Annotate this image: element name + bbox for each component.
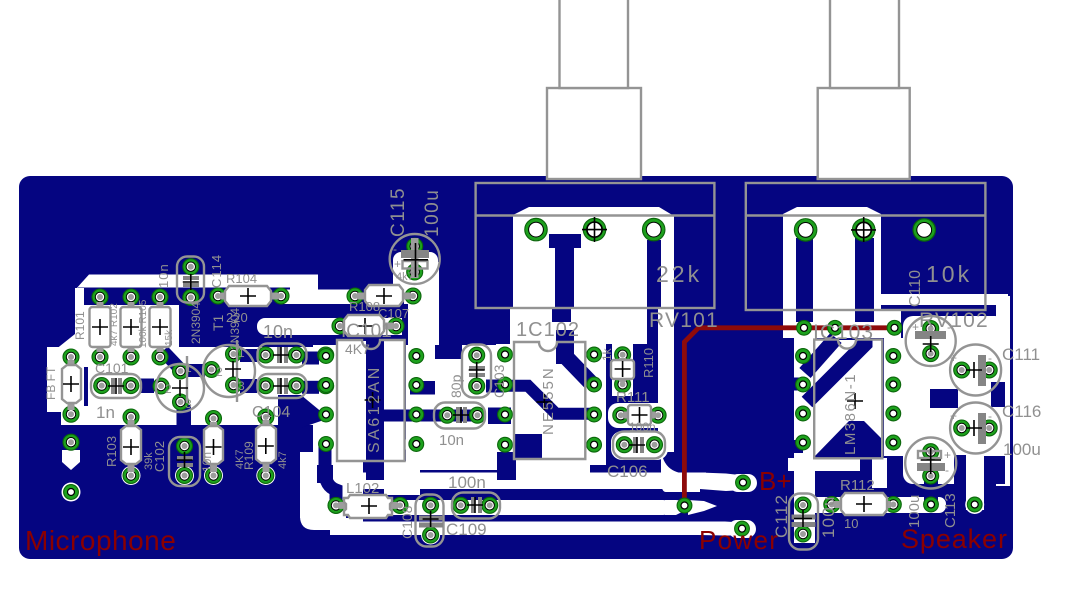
svg-text:1C102: 1C102	[516, 319, 580, 341]
wire IC101 bottom right blob	[384, 461, 420, 495]
svg-text:4k7 R102: 4k7 R102	[109, 303, 120, 346]
svg-text:C102: C102	[152, 441, 167, 472]
svg-text:15k: 15k	[164, 329, 175, 346]
wire C115 blob	[393, 252, 438, 300]
pads row 414-418	[63, 406, 79, 422]
svg-text:+: +	[394, 257, 401, 271]
wire R104-R107 band	[276, 290, 361, 305]
wire band A NE555 bottom	[495, 436, 605, 454]
svg-text:+: +	[950, 351, 957, 365]
svg-text:10k: 10k	[926, 261, 972, 287]
wire resistor field	[84, 305, 179, 367]
svg-text:R111: R111	[616, 389, 650, 406]
pads IC101	[319, 349, 334, 364]
svg-text:C107: C107	[378, 306, 409, 321]
transistor T2 2N3904	[156, 356, 204, 412]
svg-text:1k: 1k	[600, 347, 614, 361]
capacitor C109 100n	[452, 493, 500, 519]
svg-text:10: 10	[844, 516, 858, 531]
svg-text:-: -	[988, 351, 992, 365]
pads pot RV102	[794, 219, 816, 241]
wire IC101 blue vertical trace	[366, 337, 384, 480]
svg-text:-: -	[945, 463, 949, 477]
svg-text:C113: C113	[942, 493, 959, 528]
board	[19, 176, 1013, 559]
svg-text:B+: B+	[759, 466, 792, 496]
electrolytic C116	[950, 403, 1001, 454]
wire band C	[324, 500, 670, 515]
svg-text:R110: R110	[641, 348, 656, 378]
wire R111 blob	[608, 403, 670, 428]
polarity marks	[393, 242, 992, 477]
svg-text:C109: C109	[446, 520, 487, 539]
pads row 475	[123, 468, 139, 484]
svg-text:100n: 100n	[448, 473, 486, 492]
svg-text:-: -	[393, 242, 397, 256]
svg-text:100u: 100u	[819, 495, 838, 538]
svg-text:10n: 10n	[200, 452, 214, 472]
wire blue trace into IC101 pad 4	[278, 395, 321, 428]
svg-text:22k: 22k	[656, 261, 702, 287]
svg-text:T1: T1	[210, 314, 226, 331]
svg-text:C103: C103	[491, 364, 507, 398]
svg-text:+: +	[944, 448, 951, 462]
wire top copper B+ net (red)	[684, 328, 894, 504]
svg-text:10n: 10n	[439, 432, 464, 449]
svg-text:1: 1	[185, 361, 192, 375]
wire below RV102 into IC103	[783, 310, 901, 338]
svg-text:R104: R104	[226, 271, 257, 286]
capacitor C101	[91, 374, 141, 398]
svg-text:C104: C104	[252, 404, 290, 421]
wire row2 band	[47, 347, 339, 367]
svg-text:C110: C110	[907, 270, 924, 307]
wire R110 strip	[612, 316, 633, 396]
wire IC103 right pads strip	[884, 338, 903, 456]
wire R112 speaker band	[884, 433, 903, 452]
svg-text:3: 3	[185, 397, 192, 411]
wire left strip	[75, 288, 84, 335]
wire band B	[363, 473, 706, 490]
electrolytic C111	[950, 345, 1001, 396]
capacitor C105 80p	[462, 345, 491, 398]
pads speaker	[924, 497, 939, 512]
resistor R107	[357, 285, 411, 306]
wire IC103 interior blue traces	[789, 378, 803, 391]
pads C115	[407, 238, 423, 254]
svg-text:IC101: IC101	[341, 321, 392, 342]
svg-text:R112: R112	[840, 477, 875, 494]
wire band left-end block	[300, 452, 317, 518]
pads T1 T2	[226, 346, 242, 362]
svg-text:10n: 10n	[156, 263, 171, 288]
svg-text:Microphone: Microphone	[25, 525, 176, 556]
wire blue islands mid slab	[435, 345, 462, 359]
svg-text:LM386N-1: LM386N-1	[842, 373, 859, 455]
pads pot RV101	[525, 218, 547, 240]
svg-text:NE555N: NE555N	[540, 366, 557, 435]
pads row 326	[332, 318, 348, 334]
svg-text:10n: 10n	[263, 322, 293, 342]
capacitor C102	[169, 437, 200, 486]
svg-text:2N3904: 2N3904	[189, 302, 203, 344]
svg-text:SA612AN: SA612AN	[366, 365, 383, 453]
wire band D	[330, 522, 702, 536]
pads row 297	[92, 289, 108, 305]
wire below pot RV101 columns	[510, 308, 552, 348]
svg-text:C115: C115	[388, 187, 409, 237]
pads C106	[616, 437, 632, 453]
svg-text:4K7: 4K7	[345, 341, 370, 357]
wire pot RV102 slab	[783, 207, 881, 310]
IC102 NE555N outline	[514, 342, 585, 459]
resistor R104	[220, 286, 279, 306]
svg-text:3: 3	[238, 379, 245, 393]
svg-text:R109: R109	[242, 441, 256, 470]
wire 10n band row 326	[257, 318, 345, 335]
pads R110	[615, 347, 631, 363]
capacitor C106	[613, 432, 665, 459]
wire slab between IC101 and NE555	[406, 345, 505, 470]
wire row 444 stubs	[405, 434, 428, 455]
svg-text:4k7: 4k7	[396, 271, 414, 283]
svg-text:Power: Power	[699, 525, 779, 555]
capacitor C108	[416, 495, 444, 547]
wire NE555 right pads strip	[585, 316, 606, 465]
svg-text:100u: 100u	[906, 495, 923, 528]
svg-text:80p: 80p	[448, 374, 464, 398]
pads electrolytics right	[923, 321, 939, 337]
svg-text:-: -	[988, 409, 992, 423]
potentiometer RV102 body above board	[818, 88, 910, 179]
wire IC101 interior white	[338, 341, 404, 460]
wire blue islands in RV102 slab	[796, 238, 813, 322]
wire around IC101 left pads	[313, 345, 338, 465]
wire right edge vertical strip	[996, 296, 1010, 486]
wire pot RV101 slab	[513, 207, 674, 308]
pads R111	[613, 407, 629, 423]
svg-text:RV102: RV102	[919, 309, 989, 332]
pads row 356-357	[63, 349, 79, 365]
svg-text:C116: C116	[1002, 402, 1041, 421]
potentiometer RV101 body above board	[547, 88, 641, 179]
potentiometer RV101 outline	[476, 183, 715, 308]
wire C108 bottom pad blob	[421, 526, 440, 545]
resistor R110	[611, 358, 634, 382]
wire IC103 left pads strip	[794, 338, 815, 543]
wire row 475 stubs	[122, 466, 141, 485]
svg-text:4k7: 4k7	[277, 451, 289, 469]
wire blue gaps under left pot	[552, 308, 571, 322]
wire left cluster top band	[75, 275, 318, 291]
pads C112 R112	[795, 497, 811, 513]
capacitor C114	[177, 257, 204, 303]
wire C106 blob	[611, 431, 668, 460]
wire blue channel to L102	[325, 446, 336, 502]
transistor T1 2N3904	[203, 340, 255, 402]
resistor R108 vertical	[204, 422, 223, 472]
svg-text:C106: C106	[607, 462, 648, 481]
svg-text:L102: L102	[346, 480, 379, 497]
svg-text:100k R105: 100k R105	[138, 299, 149, 348]
svg-text:C101: C101	[95, 360, 129, 376]
wire blue islands caps blob	[924, 478, 938, 502]
svg-text:IC103: IC103	[813, 321, 874, 344]
wire right caps blob	[903, 316, 1005, 484]
capacitor C103	[258, 344, 307, 368]
wire NE555 interior blue traces	[556, 330, 574, 364]
pads bottom row	[328, 497, 344, 513]
svg-text:RV101: RV101	[649, 309, 719, 332]
capacitor C112	[789, 494, 818, 550]
svg-text:2: 2	[165, 382, 172, 396]
pads 80p	[469, 347, 485, 363]
wire NE555 left strip	[496, 344, 514, 465]
svg-text:FB FT: FB FT	[44, 366, 58, 400]
svg-text:100n: 100n	[629, 420, 656, 434]
wire IC103 interior white base	[815, 340, 882, 458]
electrolytic C115	[390, 234, 440, 284]
wire R107 to C115	[404, 289, 428, 304]
pads C101	[94, 378, 110, 394]
IC103 LM386N-1 outline	[814, 340, 882, 459]
resistor FB FT	[62, 360, 81, 410]
svg-text:+: +	[912, 320, 919, 334]
pads row 442-447	[63, 434, 79, 450]
svg-text:100u: 100u	[1003, 440, 1041, 459]
wire NE555 interior white	[514, 342, 586, 459]
capacitor C104	[258, 374, 307, 398]
svg-text:C108: C108	[399, 505, 415, 539]
wire mid block	[88, 360, 313, 425]
pads caps C103 C104	[258, 347, 274, 363]
wire blue islands in transistors	[240, 349, 257, 362]
wire right strip to power	[658, 300, 674, 452]
svg-text:R101: R101	[73, 311, 87, 340]
svg-text:C114: C114	[209, 254, 224, 288]
resistor R106 4k7	[342, 315, 394, 336]
svg-text:2: 2	[216, 365, 223, 379]
potentiometer RV101 wiper crosshair	[582, 217, 607, 242]
wire blue islands in pot RV101 slab	[549, 234, 581, 248]
svg-text:R103: R103	[104, 436, 119, 467]
svg-text:+: +	[950, 409, 957, 423]
svg-text:-: -	[947, 320, 951, 334]
pads NE555	[498, 347, 513, 362]
resistor R102	[121, 302, 142, 352]
svg-text:C111: C111	[1002, 345, 1040, 364]
svg-text:Speaker: Speaker	[901, 524, 1008, 554]
wire row3 band	[61, 406, 338, 425]
pads isolated	[64, 485, 79, 500]
wire C115 column down	[408, 262, 439, 357]
resistor R112	[834, 493, 891, 515]
potentiometer RV102 outline	[746, 183, 986, 310]
electrolytic C113	[905, 438, 956, 489]
capacitor C107 10n	[434, 403, 485, 429]
potentiometer RV102 wiper crosshair	[851, 217, 876, 242]
resistor R109	[256, 420, 276, 472]
resistor R103	[121, 420, 141, 472]
pads IC103	[796, 349, 811, 364]
pads red jumper row	[797, 320, 812, 335]
resistor R111	[623, 405, 656, 425]
svg-text:100u: 100u	[422, 189, 443, 237]
inductor L102	[338, 495, 398, 518]
svg-text:R108: R108	[349, 299, 380, 314]
IC101 SA612AN outline	[337, 340, 405, 461]
electrolytic C110	[906, 316, 956, 366]
svg-text:2N3904: 2N3904	[228, 308, 242, 350]
resistor R105	[150, 302, 171, 352]
svg-text:1n: 1n	[96, 403, 115, 422]
wire RV102 bottom strip to right edge	[881, 294, 1008, 305]
resistor R101	[90, 302, 111, 352]
wire isolated pad blobs	[62, 450, 80, 470]
